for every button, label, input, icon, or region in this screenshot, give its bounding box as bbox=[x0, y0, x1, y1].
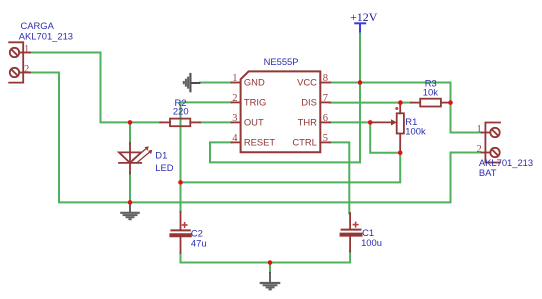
svg-text:VCC: VCC bbox=[297, 76, 317, 87]
svg-text:BAT: BAT bbox=[479, 167, 497, 178]
svg-text:2: 2 bbox=[476, 144, 481, 155]
svg-text:1: 1 bbox=[24, 44, 29, 55]
svg-text:CTRL: CTRL bbox=[292, 136, 316, 147]
svg-text:OUT: OUT bbox=[244, 116, 264, 127]
svg-text:6: 6 bbox=[323, 113, 328, 124]
svg-text:1: 1 bbox=[476, 124, 481, 135]
svg-text:LED: LED bbox=[155, 162, 173, 173]
svg-text:DIS: DIS bbox=[301, 96, 317, 107]
svg-text:2: 2 bbox=[24, 64, 29, 75]
svg-text:47u: 47u bbox=[191, 237, 207, 248]
svg-text:5: 5 bbox=[323, 133, 328, 144]
svg-text:AKL701_213: AKL701_213 bbox=[19, 30, 73, 41]
svg-text:10k: 10k bbox=[423, 87, 438, 98]
svg-text:+12V: +12V bbox=[350, 10, 378, 24]
svg-text:TRIG: TRIG bbox=[244, 96, 266, 107]
svg-text:RESET: RESET bbox=[244, 136, 276, 147]
svg-text:GND: GND bbox=[244, 76, 265, 87]
svg-text:NE555P: NE555P bbox=[264, 56, 299, 67]
svg-text:8: 8 bbox=[323, 73, 328, 84]
svg-text:100k: 100k bbox=[405, 126, 426, 137]
svg-text:D1: D1 bbox=[155, 149, 167, 160]
svg-text:4: 4 bbox=[232, 133, 238, 144]
svg-text:100u: 100u bbox=[361, 237, 382, 248]
svg-text:2: 2 bbox=[232, 93, 237, 104]
svg-text:THR: THR bbox=[298, 116, 317, 127]
svg-text:1: 1 bbox=[232, 73, 237, 84]
svg-text:220: 220 bbox=[173, 106, 189, 117]
svg-text:3: 3 bbox=[232, 113, 237, 124]
svg-text:7: 7 bbox=[323, 93, 328, 104]
